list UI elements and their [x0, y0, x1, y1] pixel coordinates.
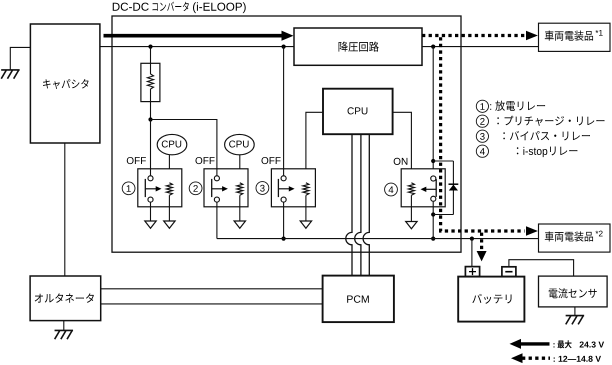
- junction node: switch / diode bottom: [431, 212, 435, 216]
- junction node: i-stop relay on battery rail: [431, 237, 435, 241]
- wire: buck output node down to i-stop relay: [432, 47, 434, 176]
- control line: CPU to PCM (3, hops battery rail): [363, 134, 369, 275]
- wire: precharge relay switch to battery junction rail: [216, 203, 218, 239]
- ground (bypass relay coil): [300, 221, 311, 228]
- wire: branch node to discharge relay switch: [150, 120, 152, 176]
- wire: alternator to chassis ground: [63, 321, 65, 331]
- wire: precharge relay coil to ground: [239, 195, 241, 221]
- wire: discharge relay coil to ground: [168, 195, 170, 221]
- wire: diode branch bottom: [433, 214, 453, 216]
- wire: i-stop relay switch to lower junction: [432, 202, 434, 239]
- relay box ③ バイパス・リレー (bypass relay): [271, 169, 315, 207]
- legend arrow: 12-14.8 V (dashed): [522, 357, 550, 360]
- wire: capacitor to chassis ground: [10, 47, 30, 70]
- dashed power line: down to vehicle equipment *2 (12-14.8 V): [441, 37, 525, 231]
- legend arrow: max 24.3 V (solid): [520, 342, 550, 345]
- relay box ② プリチャージ・リレー (precharge relay): [204, 169, 248, 207]
- battery バッテリ: [458, 277, 524, 322]
- vehicle equipment box 車両電装品*1: [539, 23, 611, 51]
- label OFF (relay 1): [127, 157, 146, 164]
- control line: CPU to PCM (1, hops battery rail): [346, 134, 352, 275]
- wire: CPU to bypass relay coil: [306, 112, 323, 183]
- diode (across i-stop relay switch): [452, 161, 454, 215]
- wire: bypass relay switch down to battery junction rail: [283, 203, 285, 239]
- label OFF (relay 3): [261, 157, 280, 164]
- junction node: bypass relay on battery rail: [282, 237, 286, 241]
- battery negative terminal: [502, 267, 516, 277]
- buck converter 降圧回路: [294, 28, 422, 65]
- relay box ① 放電リレー (discharge relay): [138, 169, 182, 207]
- CPU driver (precharge relay): [225, 134, 255, 154]
- wire: alternator to PCM (lower): [101, 303, 323, 305]
- junction node: bus / precharge-resistor branch: [148, 45, 152, 49]
- wire: battery rail to positive terminal: [471, 239, 473, 267]
- legend label: 最大 24.3 V: [554, 340, 572, 348]
- dashed power line: buck output to vehicle equipment *1 (12-14.8 V): [422, 34, 525, 37]
- designator circle 1: [122, 182, 135, 195]
- dashed arrow: 12-14.8 V to battery: [480, 233, 483, 252]
- wire: buck output to vehicle equipment *1: [422, 46, 539, 48]
- wire: i-stop relay coil to ground: [410, 195, 412, 221]
- control line: CPU to PCM (2, hops battery rail): [355, 134, 361, 275]
- wire: bus node down to bypass relay switch: [283, 47, 285, 176]
- label ON (relay 4): [394, 158, 408, 165]
- wire: capacitor bottom to alternator: [64, 143, 66, 276]
- label: DC-DC コンバータ (i-ELOOP): [113, 3, 149, 11]
- wire: precharge resistor to relay branch node: [150, 89, 152, 120]
- junction node: bus / bypass-relay branch: [282, 45, 286, 49]
- junction node: precharge/discharge relay branch: [148, 117, 152, 121]
- ground (i-stop relay coil): [406, 222, 417, 229]
- current sensor 電流センサ: [539, 276, 608, 307]
- capacitor キャパシタ: [30, 24, 100, 143]
- junction node: i-stop relay / diode branch: [431, 159, 435, 163]
- legend: プリチャージ・リレー: [497, 116, 604, 126]
- wire: battery negative to current sensor: [509, 260, 574, 276]
- legend: i-stopリレー: [517, 147, 578, 158]
- ground (current sensor): [566, 316, 585, 325]
- vehicle equipment box 車両電装品*2: [539, 224, 611, 252]
- legend circle 3: [476, 130, 488, 142]
- wire: alternator to PCM (upper): [101, 288, 323, 290]
- junction node: battery positive branch: [470, 237, 474, 241]
- ground (discharge relay switch): [145, 221, 156, 228]
- wire: CPU driver to precharge relay coil: [239, 155, 241, 183]
- precharge resistor enclosure box: [141, 63, 160, 101]
- legend: バイパス・リレー: [503, 131, 590, 140]
- wire: current sensor to ground: [574, 307, 576, 316]
- wire: battery junction rail: [217, 238, 539, 240]
- legend circle 2: [476, 115, 488, 127]
- legend circle 4: [476, 145, 488, 157]
- ground (discharge relay coil): [164, 221, 175, 228]
- wire: CPU to i-stop relay coil: [393, 112, 412, 183]
- precharge resistor element: [148, 74, 154, 89]
- wire: bypass relay coil to ground: [305, 195, 307, 221]
- designator circle 3: [256, 182, 269, 195]
- relay box ④ i-stopリレー (i-stop relay): [401, 169, 445, 207]
- thick arrow: capacitor to buck converter (max 24.3 V flow): [104, 34, 283, 38]
- wire: diode branch top: [433, 160, 453, 162]
- wire: discharge relay switch to ground: [150, 203, 152, 222]
- designator circle 4: [385, 183, 398, 196]
- junction node: buck output / i-stop relay branch: [431, 45, 435, 49]
- wire: CPU driver to discharge relay coil: [168, 155, 170, 183]
- wire: branch node to precharge relay switch: [151, 120, 217, 176]
- DC-DC converter enclosure box: [112, 16, 461, 252]
- ground (precharge relay coil): [234, 221, 245, 228]
- designator circle 2: [189, 182, 202, 195]
- wire: capacitor output bus to buck converter: [100, 46, 294, 48]
- legend label: 12-14.8 V: [554, 356, 601, 362]
- legend: 放電リレー: [490, 101, 545, 111]
- alternator オルタネータ: [30, 276, 101, 321]
- label OFF (relay 2): [195, 157, 214, 164]
- CPU driver (discharge relay): [157, 134, 187, 154]
- battery positive terminal: [465, 267, 479, 277]
- CPU (converter controller): [323, 89, 393, 135]
- PCM box: [323, 276, 394, 323]
- ground (alternator): [55, 330, 74, 339]
- wire: bus node down into precharge resistor: [150, 47, 152, 74]
- legend circle 1: [476, 100, 488, 112]
- ground (chassis) at capacitor: [1, 70, 20, 79]
